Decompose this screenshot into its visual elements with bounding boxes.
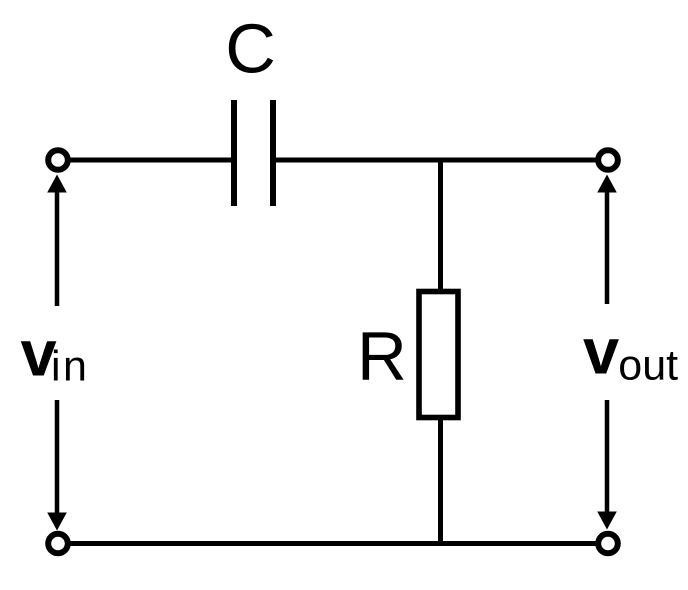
wire: [438, 160, 443, 291]
node Vin+ terminal: [48, 150, 68, 170]
node Vout+ terminal: [598, 150, 618, 170]
svg-text:C: C: [225, 10, 276, 88]
node Vin- terminal: [48, 534, 68, 554]
arrow Vout: [597, 175, 617, 530]
resistor R: [419, 292, 458, 418]
wire: [67, 541, 598, 546]
wire: [67, 158, 234, 163]
svg-text:vin: vin: [21, 317, 90, 391]
wire: [273, 158, 598, 163]
node Vout- terminal: [598, 534, 618, 554]
wire: [438, 418, 443, 544]
arrow Vin: [47, 175, 67, 531]
capacitor C: [234, 100, 273, 206]
svg-text:R: R: [357, 318, 407, 395]
svg-text:vout: vout: [583, 315, 678, 390]
